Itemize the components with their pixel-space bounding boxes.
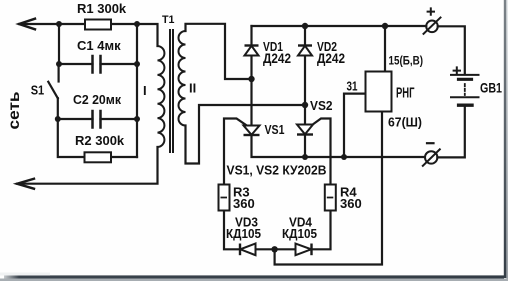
svg-text:15(Б,В): 15(Б,В) [389, 54, 424, 68]
svg-text:VS2: VS2 [310, 98, 333, 113]
svg-text:КД105: КД105 [226, 226, 261, 241]
svg-text:GB1: GB1 [480, 80, 502, 96]
svg-text:II: II [189, 81, 196, 96]
svg-text:Д242: Д242 [317, 51, 345, 66]
svg-text:КД105: КД105 [282, 226, 317, 241]
svg-text:Д242: Д242 [263, 51, 291, 66]
svg-text:VS1, VS2 КУ202В: VS1, VS2 КУ202В [227, 163, 327, 178]
svg-text:31: 31 [347, 79, 358, 94]
svg-text:сеть: сеть [6, 91, 23, 129]
svg-text:T1: T1 [162, 14, 175, 26]
svg-text:С1 4мк: С1 4мк [77, 38, 121, 53]
svg-text:РНГ: РНГ [396, 86, 415, 102]
svg-text:360: 360 [340, 196, 362, 211]
svg-text:R1 300k: R1 300k [77, 1, 127, 16]
svg-text:67(Ш): 67(Ш) [388, 115, 422, 130]
svg-text:R2 300k: R2 300k [75, 133, 125, 148]
svg-text:С2 20мк: С2 20мк [73, 92, 121, 107]
svg-text:360: 360 [233, 196, 255, 211]
svg-text:VS1: VS1 [265, 122, 285, 137]
svg-text:S1: S1 [31, 83, 45, 98]
svg-text:I: I [143, 83, 147, 98]
